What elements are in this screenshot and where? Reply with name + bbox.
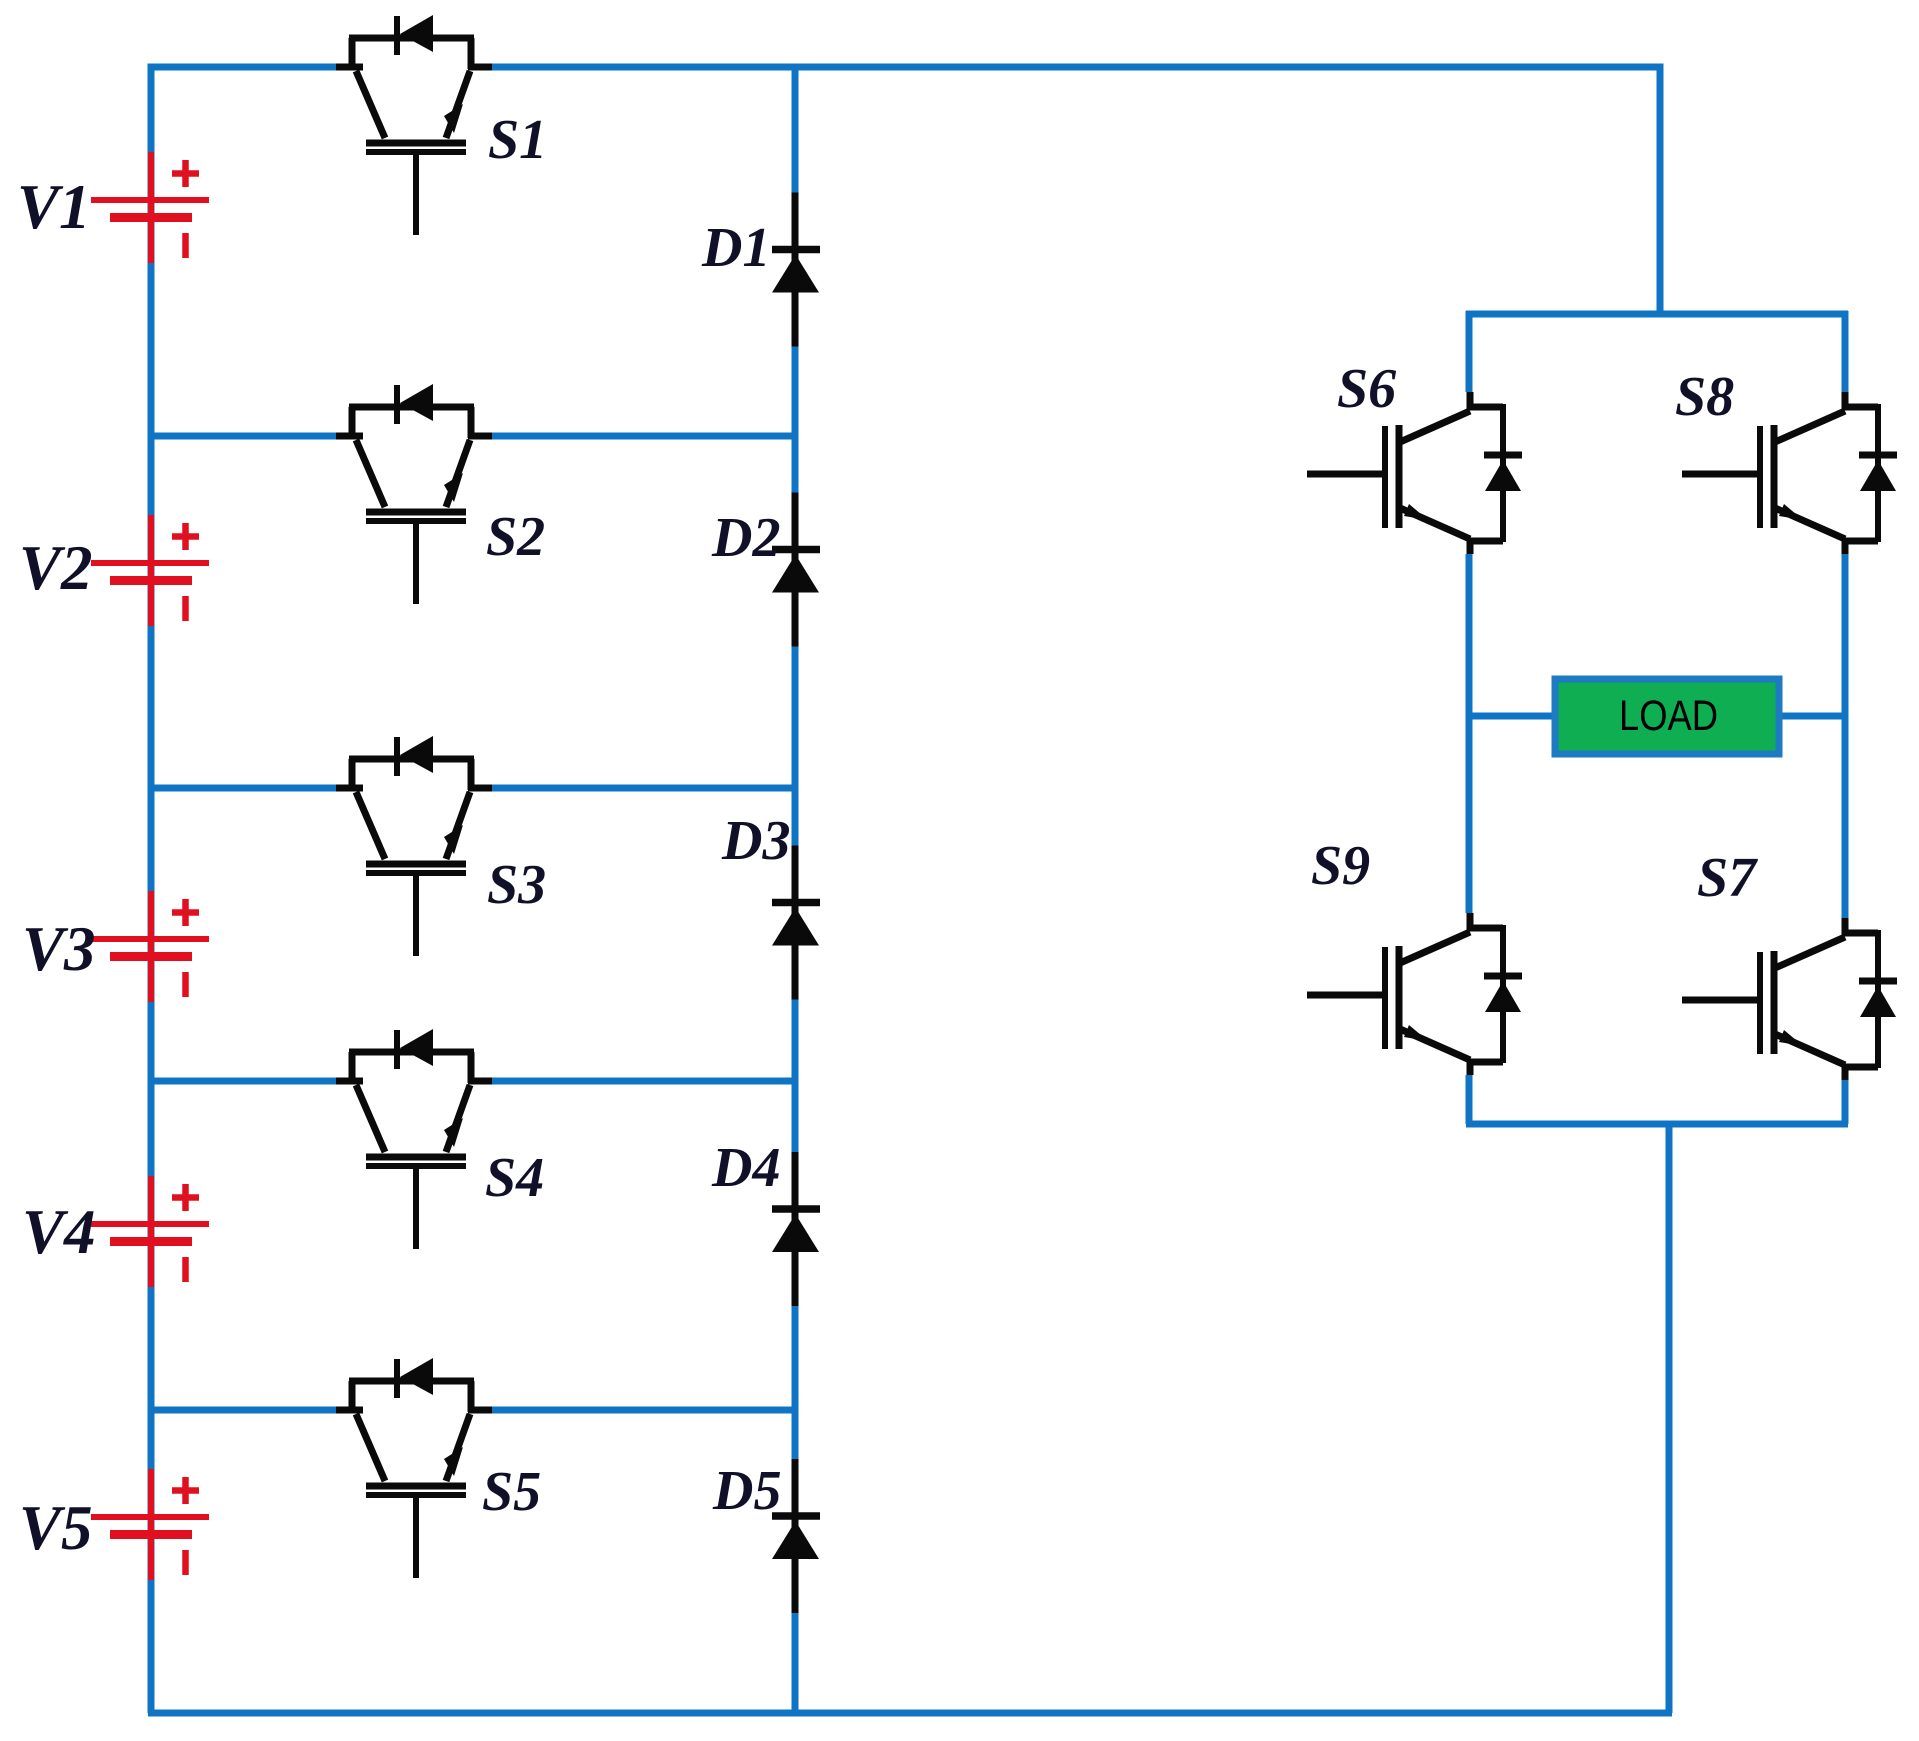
svg-text:S4: S4 [485,1147,544,1209]
svg-text:S6: S6 [1337,358,1396,420]
svg-text:S2: S2 [486,506,545,568]
svg-text:V4: V4 [22,1197,96,1267]
svg-text:S7: S7 [1697,847,1758,909]
svg-text:V5: V5 [19,1493,93,1563]
svg-text:S8: S8 [1675,366,1734,428]
svg-text:D3: D3 [721,810,790,872]
svg-text:S5: S5 [482,1461,541,1523]
svg-text:S1: S1 [488,109,547,171]
svg-text:D2: D2 [711,507,780,569]
svg-text:S3: S3 [487,854,546,916]
svg-text:V2: V2 [19,533,93,603]
svg-text:D5: D5 [712,1460,781,1522]
svg-text:V3: V3 [22,914,96,984]
svg-text:V1: V1 [17,172,91,242]
svg-text:LOAD: LOAD [1619,692,1718,740]
svg-text:D4: D4 [711,1137,780,1199]
svg-text:S9: S9 [1311,835,1370,897]
svg-text:D1: D1 [701,217,770,279]
